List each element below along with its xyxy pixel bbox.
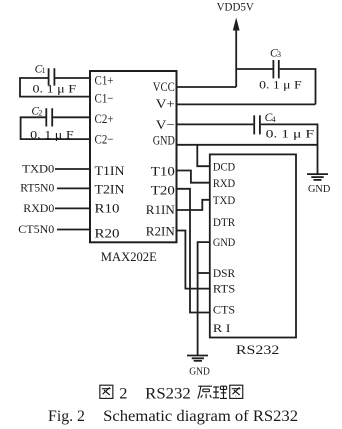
svg-text:DSR: DSR	[213, 266, 235, 280]
pin RXD	[213, 176, 236, 190]
wire TXD0 to T1IN	[55, 168, 90, 170]
pin V-	[156, 117, 175, 132]
pin V+	[156, 96, 175, 111]
svg-text:R10: R10	[95, 200, 120, 215]
wire C1+ loop	[20, 78, 90, 97]
pin TXD	[213, 193, 236, 207]
svg-text:GND: GND	[153, 133, 175, 148]
pin C2-	[95, 131, 114, 146]
svg-text:VCC: VCC	[153, 79, 175, 94]
svg-text:C2−: C2−	[95, 131, 114, 146]
wire V+	[177, 103, 316, 105]
svg-text:0. 1 μ F: 0. 1 μ F	[266, 129, 315, 141]
wire RT5N0 to T2IN	[57, 187, 90, 189]
svg-text:DCD: DCD	[213, 159, 236, 173]
connector RS232 body	[210, 154, 296, 337]
pin R10	[95, 200, 120, 215]
pin T2IN	[95, 182, 126, 197]
label MAX202E	[101, 250, 157, 264]
svg-text:R1IN: R1IN	[146, 202, 176, 217]
pin GND	[213, 235, 236, 249]
svg-text:2: 2	[119, 385, 127, 402]
wire VDD rail to C3 left plate	[236, 68, 272, 70]
svg-text:0. 1 μ F: 0. 1 μ F	[259, 80, 302, 92]
wire C2+ loop	[21, 117, 90, 139]
svg-text:DTR: DTR	[213, 215, 235, 229]
pin DCD	[213, 159, 236, 173]
pin C2+	[95, 111, 114, 126]
svg-text:VDD5V: VDD5V	[217, 1, 255, 13]
svg-text:CT5N0: CT5N0	[18, 222, 54, 236]
svg-text:V−: V−	[156, 117, 175, 132]
svg-text:R2IN: R2IN	[146, 224, 176, 239]
svg-text:4: 4	[272, 115, 276, 124]
svg-text:V+: V+	[156, 96, 175, 111]
node CT5N0	[18, 222, 54, 236]
pin T20	[151, 182, 175, 197]
wire CT5N0 to R20	[57, 229, 90, 231]
wire RXD0 to R10	[55, 207, 90, 209]
pin RI	[213, 321, 231, 335]
ground bottom	[187, 356, 210, 378]
pin R20	[95, 226, 120, 241]
pin RTS	[213, 281, 235, 295]
svg-text:GND: GND	[189, 366, 210, 378]
svg-text:GND: GND	[213, 235, 236, 249]
node RXD0	[23, 201, 54, 215]
svg-text:RXD: RXD	[213, 176, 236, 190]
pin R1IN	[146, 202, 176, 217]
svg-text:T1IN: T1IN	[95, 163, 126, 178]
wire GND pin to right ground rail	[177, 144, 318, 146]
node RT5N0	[20, 181, 54, 195]
svg-text:RS232: RS232	[236, 342, 280, 357]
label RS232	[236, 342, 280, 357]
capacitor C1	[33, 63, 77, 95]
svg-text:1: 1	[42, 66, 46, 75]
wire GND to DCD	[197, 145, 210, 166]
svg-text:RT5N0: RT5N0	[20, 181, 54, 195]
svg-text:C1+: C1+	[95, 73, 114, 88]
pin C1-	[95, 90, 114, 105]
wire R2IN to RTS	[177, 231, 210, 289]
svg-text:TXD0: TXD0	[22, 161, 54, 175]
capacitor C3	[259, 47, 302, 91]
svg-text:CTS: CTS	[213, 302, 235, 316]
wire branch to DSR	[198, 272, 210, 274]
wire T10 to RXD	[177, 171, 210, 183]
svg-text:R20: R20	[95, 226, 120, 241]
svg-text:TXD: TXD	[213, 193, 236, 207]
svg-text:C2+: C2+	[95, 111, 114, 126]
pin T10	[151, 163, 175, 178]
pin GND	[153, 133, 175, 148]
wire C1 right plate to C1+ pin	[55, 77, 90, 79]
svg-text:T2IN: T2IN	[95, 182, 126, 197]
svg-text:C1−: C1−	[95, 90, 114, 105]
svg-text:0. 1 μ F: 0. 1 μ F	[33, 84, 77, 96]
svg-text:RXD0: RXD0	[23, 201, 54, 215]
svg-text:T10: T10	[151, 163, 175, 178]
svg-text:MAX202E: MAX202E	[101, 250, 157, 264]
svg-text:R I: R I	[213, 321, 231, 335]
svg-text:Schematic diagram of RS232: Schematic diagram of RS232	[103, 406, 298, 425]
svg-text:Fig. 2: Fig. 2	[48, 406, 85, 425]
wire C3 right plate to right rail down to V+	[280, 69, 316, 104]
wire T20 to CTS	[177, 189, 210, 313]
wire RS232 GND down to ground	[198, 242, 210, 355]
svg-text:GND: GND	[308, 183, 330, 195]
svg-text:RS232: RS232	[145, 385, 191, 402]
wire C2 right plate to C2+ pin	[53, 116, 90, 118]
wire R1IN to TXD	[177, 200, 210, 210]
svg-text:2: 2	[38, 109, 42, 118]
caption line 2	[48, 406, 298, 425]
svg-text:T20: T20	[151, 182, 175, 197]
wire VCC to VDD rail	[177, 86, 237, 88]
power VDD5V	[217, 1, 255, 87]
pin VCC	[153, 79, 175, 94]
pin T1IN	[95, 163, 126, 178]
wire V- to C4 left plate	[177, 123, 254, 125]
node TXD0	[22, 161, 54, 175]
wire C4 right plate to ground rail	[261, 124, 318, 174]
svg-text:RTS: RTS	[213, 281, 235, 295]
capacitor C4	[254, 112, 314, 141]
pin DSR	[213, 266, 235, 280]
pin CTS	[213, 302, 235, 316]
pin DTR	[213, 215, 235, 229]
ground right	[307, 174, 330, 195]
op-amp U1 MAX202E body	[90, 71, 177, 242]
capacitor C2	[30, 106, 74, 142]
pin R2IN	[146, 224, 176, 239]
svg-text:3: 3	[277, 50, 281, 59]
caption line 1	[100, 385, 243, 402]
pin C1+	[95, 73, 114, 88]
